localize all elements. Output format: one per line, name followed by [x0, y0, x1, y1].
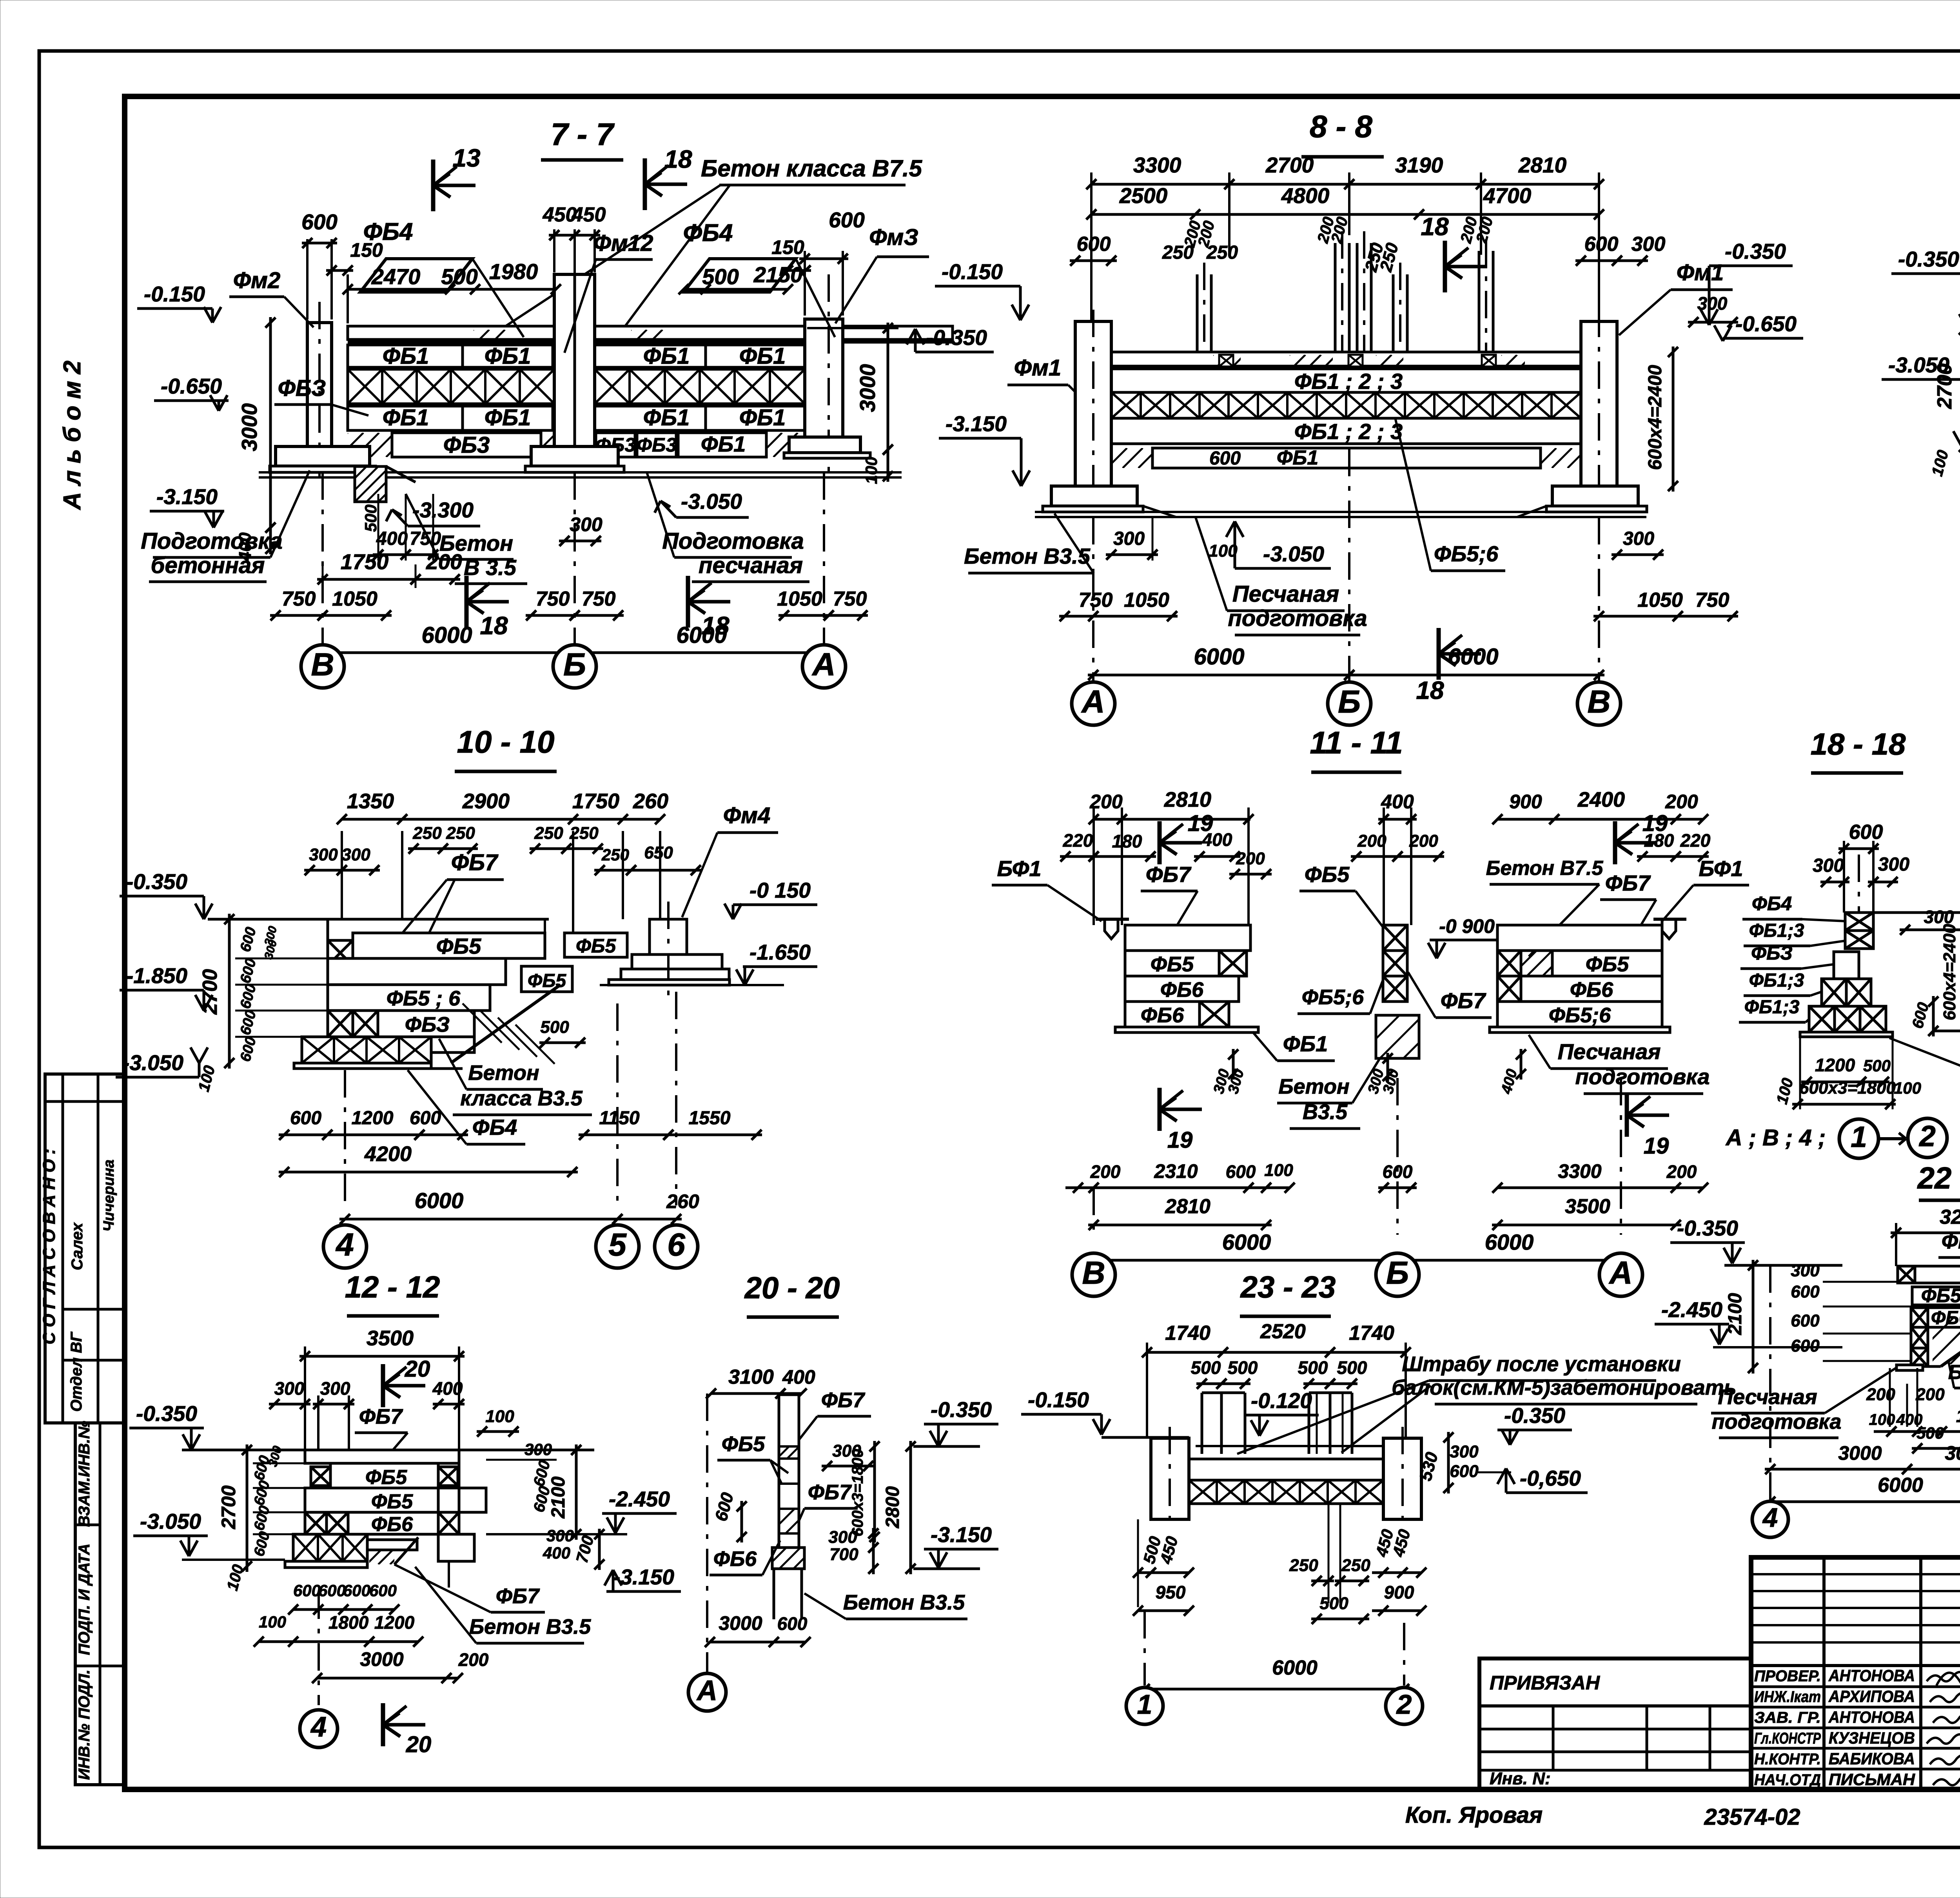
svg-text:200: 200 [1666, 1161, 1697, 1182]
top level line 22-22 [1724, 1264, 1842, 1267]
right pier blocks 11-11 [1497, 925, 1662, 951]
svg-text:18: 18 [1416, 676, 1444, 704]
axis circle A 7-7 [823, 472, 825, 645]
svg-text:ФБ3: ФБ3 [637, 434, 677, 456]
svg-text:-3.050: -3.050 [1263, 542, 1324, 566]
svg-text:-0.350: -0.350 [1677, 1216, 1738, 1240]
axis circle 6 10-10 [675, 992, 677, 1205]
svg-text:750: 750 [833, 588, 867, 610]
svg-text:-0.350: -0.350 [1504, 1403, 1565, 1428]
wall 7-7 row FB1 upper [348, 345, 463, 367]
svg-text:ФБ3: ФБ3 [443, 432, 490, 458]
svg-text:600: 600 [829, 208, 865, 232]
footing 20-20 [772, 1548, 804, 1569]
svg-text:КУЗНЕЦОВ: КУЗНЕЦОВ [1829, 1729, 1915, 1747]
beam 23-23 [1189, 1459, 1385, 1480]
svg-text:1200: 1200 [352, 1108, 394, 1129]
svg-text:600: 600 [369, 1581, 397, 1600]
svg-text:ФБ1: ФБ1 [1283, 1031, 1328, 1056]
svg-text:100: 100 [862, 457, 880, 484]
svg-text:ФБ1: ФБ1 [701, 432, 746, 456]
BF1 tee right 11-11 [1653, 918, 1686, 921]
svg-text:ФБ5;6: ФБ5;6 [1549, 1003, 1611, 1027]
svg-text:450: 450 [572, 203, 606, 226]
svg-text:600: 600 [1450, 1462, 1479, 1481]
svg-text:600: 600 [301, 210, 338, 234]
svg-text:950: 950 [1156, 1582, 1186, 1602]
svg-text:3500: 3500 [367, 1326, 414, 1350]
svg-text:250: 250 [601, 846, 629, 864]
svg-text:500: 500 [441, 264, 477, 289]
right pedestal 10-10 [650, 919, 687, 954]
svg-text:ФБ5: ФБ5 [371, 1490, 413, 1513]
svg-text:ВЗАМ.ИНВ.№: ВЗАМ.ИНВ.№ [76, 1421, 93, 1527]
svg-text:-0,650: -0,650 [1520, 1466, 1581, 1490]
svg-text:-2.450: -2.450 [1661, 1297, 1722, 1322]
axis circle 5 10-10 [616, 1003, 619, 1205]
svg-text:ФБЗ: ФБЗ [1751, 942, 1793, 964]
svg-text:3000: 3000 [719, 1612, 762, 1634]
right vertical dim 3000 7-7 [887, 323, 889, 455]
svg-text:-0.120: -0.120 [1251, 1388, 1312, 1413]
svg-text:300: 300 [309, 845, 338, 864]
svg-text:ФБ6: ФБ6 [713, 1547, 757, 1571]
svg-text:20: 20 [405, 1356, 430, 1382]
svg-text:3100: 3100 [728, 1366, 774, 1388]
svg-text:3000: 3000 [1838, 1442, 1882, 1464]
dim 600 over column V [306, 239, 309, 319]
svg-text:Подготовка: Подготовка [141, 528, 283, 554]
svg-text:600: 600 [1849, 821, 1883, 844]
svg-text:18: 18 [664, 145, 692, 173]
svg-text:1050: 1050 [1124, 589, 1169, 611]
svg-text:200: 200 [1090, 1161, 1121, 1182]
svg-text:-2.450: -2.450 [609, 1487, 670, 1511]
svg-text:С О Г Л А С О В А Н О :: С О Г Л А С О В А Н О : [40, 1149, 59, 1345]
svg-text:18: 18 [480, 611, 508, 640]
svg-text:150: 150 [771, 236, 804, 258]
svg-text:ФБ1: ФБ1 [643, 343, 690, 369]
svg-text:2470: 2470 [371, 264, 421, 289]
svg-text:500: 500 [702, 264, 739, 289]
svg-text:ФБ5: ФБ5 [365, 1466, 407, 1489]
section marker 20 top 12-12 [381, 1364, 385, 1407]
dim 100 right bottom 7-7 [887, 444, 889, 482]
svg-text:2900: 2900 [462, 789, 510, 813]
svg-text:БФ1: БФ1 [997, 856, 1041, 881]
svg-text:600: 600 [1209, 448, 1241, 469]
svg-text:Фм2: Фм2 [233, 268, 280, 293]
wall band 8-8 top beam [1111, 352, 1581, 366]
svg-text:-3.150: -3.150 [613, 1565, 674, 1589]
svg-text:ФБ5 ; 6: ФБ5 ; 6 [1921, 1285, 1960, 1306]
svg-text:ФБ1;3: ФБ1;3 [1744, 997, 1800, 1018]
svg-text:3300: 3300 [1133, 153, 1181, 177]
svg-text:Отдел ВГ: Отдел ВГ [68, 1331, 85, 1412]
svg-text:400: 400 [1381, 791, 1414, 813]
svg-text:-0.650: -0.650 [1735, 312, 1797, 336]
svg-text:750: 750 [582, 588, 616, 610]
svg-text:Фм12: Фм12 [593, 230, 653, 256]
section marker 20 bottom 12-12 [381, 1703, 385, 1746]
axis circle A 8-8 [1092, 517, 1094, 682]
svg-text:ФБ6: ФБ6 [371, 1513, 413, 1536]
base plate 18-18 [1800, 1032, 1893, 1037]
svg-text:220: 220 [1063, 830, 1093, 851]
svg-text:12 - 12: 12 - 12 [345, 1270, 440, 1304]
shelf 23-23 [1196, 1445, 1383, 1447]
svg-text:ФБ5: ФБ5 [436, 934, 481, 958]
axis circle 2 23-23 [1403, 1623, 1405, 1686]
svg-text:500: 500 [1319, 1594, 1348, 1613]
column A 7-7 [805, 319, 843, 437]
section marker 18 bottom-right [686, 576, 690, 628]
svg-text:260: 260 [633, 789, 668, 813]
svg-text:2700: 2700 [199, 969, 221, 1015]
svg-text:ПИСЬМАН: ПИСЬМАН [1829, 1770, 1916, 1789]
svg-text:200: 200 [458, 1649, 489, 1670]
svg-text:200: 200 [1357, 831, 1387, 851]
svg-text:100: 100 [259, 1613, 286, 1631]
svg-text:2800: 2800 [882, 1486, 903, 1528]
axis circle 4 22-22 [1769, 1265, 1771, 1501]
svg-text:1550: 1550 [689, 1108, 731, 1129]
svg-text:ФБ7: ФБ7 [821, 1388, 866, 1412]
section marker 19 topright 11-11 [1613, 821, 1617, 864]
svg-text:250: 250 [569, 824, 599, 843]
svg-text:ФБ1: ФБ1 [485, 343, 531, 369]
svg-text:13: 13 [452, 144, 480, 172]
svg-text:ФБ5: ФБ5 [722, 1432, 765, 1456]
axis circle B 11-11 [1396, 1078, 1399, 1235]
svg-text:В: В [311, 647, 334, 682]
dims top 10-10 [341, 831, 343, 919]
left vdims 22-22 [1752, 1260, 1755, 1374]
svg-text:100: 100 [1264, 1161, 1293, 1180]
svg-text:100: 100 [485, 1407, 514, 1426]
svg-text:1150: 1150 [599, 1108, 640, 1129]
svg-text:1050: 1050 [1637, 589, 1683, 611]
svg-text:-0.350: -0.350 [136, 1401, 197, 1426]
svg-text:-3.150: -3.150 [946, 412, 1007, 436]
columns 23-23 [1151, 1438, 1189, 1519]
pier stack 18-18 [1845, 913, 1873, 931]
svg-text:Бетон В3.5: Бетон В3.5 [469, 1615, 591, 1639]
posts 23-23 [1201, 1393, 1203, 1454]
svg-text:22 - 22: 22 - 22 [1917, 1161, 1960, 1195]
dims top row2 8-8 [1091, 213, 1599, 216]
svg-text:А: А [696, 1675, 717, 1706]
svg-text:220: 220 [1680, 830, 1711, 851]
svg-text:ФБ6: ФБ6 [1570, 978, 1613, 1002]
base plate 10-10 [294, 1063, 431, 1069]
svg-text:Бетон: Бетон [1278, 1075, 1349, 1098]
mid X stack 11-11 [1383, 925, 1407, 951]
svg-text:ФБ7: ФБ7 [451, 850, 499, 875]
top level line 23-23 [1102, 1436, 1189, 1439]
svg-text:Подготовка: Подготовка [662, 528, 804, 554]
svg-text:2500: 2500 [1119, 183, 1168, 208]
svg-text:ФБ5: ФБ5 [1305, 862, 1350, 887]
svg-text:250: 250 [1289, 1556, 1318, 1575]
svg-text:600: 600 [1226, 1161, 1256, 1182]
svg-text:6000: 6000 [415, 1188, 464, 1213]
svg-text:300: 300 [1878, 854, 1909, 875]
svg-text:20 - 20: 20 - 20 [744, 1270, 840, 1305]
svg-text:900: 900 [1509, 791, 1542, 813]
svg-text:600х3=1800: 600х3=1800 [1799, 1078, 1896, 1098]
svg-text:600: 600 [410, 1108, 441, 1129]
svg-text:ФБ4: ФБ4 [472, 1115, 517, 1140]
svg-text:600х3=1800: 600х3=1800 [849, 1449, 866, 1537]
svg-text:4700: 4700 [1483, 183, 1532, 208]
ground line 8-8 [1035, 511, 1646, 513]
svg-text:1050: 1050 [777, 588, 822, 610]
svg-text:500: 500 [540, 1018, 569, 1037]
wedge 10-10 [451, 985, 561, 1063]
svg-text:АРХИПОВА: АРХИПОВА [1828, 1687, 1915, 1706]
svg-text:180: 180 [1112, 831, 1142, 851]
svg-text:500: 500 [1337, 1357, 1367, 1378]
svg-text:1750: 1750 [572, 789, 619, 813]
section marker 18 bottom 8-8 [1437, 628, 1441, 680]
svg-text:600: 600 [777, 1613, 808, 1634]
svg-text:-3.050: -3.050 [681, 489, 742, 514]
svg-text:6: 6 [667, 1227, 686, 1263]
svg-text:1750: 1750 [341, 550, 389, 574]
axis circle V 11-11 [1093, 1188, 1095, 1235]
left margin inv table [75, 1423, 125, 1785]
svg-text:650: 650 [644, 843, 673, 862]
structure 22-22 [1898, 1266, 1915, 1283]
structure 10-10 [353, 933, 545, 958]
svg-text:300: 300 [1113, 528, 1145, 549]
svg-text:ФБ5 ; 6: ФБ5 ; 6 [387, 987, 461, 1010]
svg-text:ИНВ.№ ПОДЛ.: ИНВ.№ ПОДЛ. [76, 1669, 93, 1780]
privyazan table [1479, 1658, 1751, 1789]
svg-text:750: 750 [282, 588, 316, 610]
svg-text:19: 19 [1644, 1133, 1669, 1159]
svg-text:750: 750 [536, 588, 570, 610]
svg-text:ФБ4: ФБ4 [683, 220, 733, 247]
svg-text:ФБ1: ФБ1 [739, 343, 786, 369]
svg-text:3200: 3200 [1940, 1206, 1960, 1228]
svg-text:750: 750 [1079, 589, 1113, 611]
wall 8-8 X row [1111, 392, 1581, 418]
vertical dim 3000 left 7-7 [269, 317, 272, 533]
note sand prep long 18-18 leader [1889, 1038, 1960, 1096]
X row 23-23 [1189, 1480, 1383, 1504]
svg-text:900: 900 [1384, 1582, 1414, 1602]
svg-text:700: 700 [829, 1545, 858, 1564]
svg-text:1: 1 [1137, 1689, 1152, 1720]
svg-text:ИНЖ.Iкат: ИНЖ.Iкат [1754, 1688, 1821, 1706]
svg-text:3000: 3000 [1945, 1442, 1960, 1464]
top level line 12-12 [182, 1449, 594, 1452]
svg-text:ФБ6: ФБ6 [1160, 978, 1204, 1002]
top level line 10-10 [208, 918, 549, 921]
svg-text:600: 600 [290, 1108, 321, 1129]
svg-text:Гл.КОНСТР: Гл.КОНСТР [1754, 1730, 1821, 1747]
svg-text:260: 260 [666, 1190, 699, 1212]
svg-text:300: 300 [1697, 293, 1728, 314]
svg-text:300: 300 [1813, 855, 1844, 876]
svg-text:200: 200 [1236, 849, 1265, 868]
svg-text:2810: 2810 [1518, 153, 1567, 177]
wall 8-8 row FB123 lower [1111, 418, 1581, 444]
svg-text:3190: 3190 [1395, 153, 1443, 177]
svg-text:7 - 7: 7 - 7 [551, 117, 615, 152]
svg-text:ФБ5: ФБ5 [528, 971, 566, 991]
section cut marker 18 top [643, 158, 647, 210]
svg-text:2100: 2100 [1725, 1293, 1746, 1335]
svg-text:300: 300 [524, 1440, 552, 1459]
svg-text:400: 400 [376, 528, 408, 549]
svg-text:-3.300: -3.300 [412, 498, 474, 522]
svg-text:6000: 6000 [1485, 1230, 1534, 1254]
dim 150 right [782, 269, 811, 272]
svg-text:2810: 2810 [1165, 1195, 1210, 1218]
svg-text:ФБ4: ФБ4 [1752, 893, 1792, 915]
svg-text:Бетон В3.5: Бетон В3.5 [964, 544, 1091, 568]
svg-text:200: 200 [1915, 1385, 1945, 1404]
dims top row1 8-8 [1090, 172, 1093, 329]
wall 8-8 bottom FB1 row [1152, 448, 1541, 468]
svg-text:20: 20 [406, 1732, 432, 1757]
svg-text:500: 500 [1298, 1357, 1328, 1378]
svg-text:ФБ1: ФБ1 [383, 343, 429, 369]
svg-text:2700: 2700 [1933, 363, 1956, 409]
svg-text:-3.150: -3.150 [156, 484, 218, 509]
svg-text:300: 300 [320, 1378, 350, 1399]
svg-text:400: 400 [1202, 829, 1232, 850]
svg-text:Бетон класса В7.5: Бетон класса В7.5 [701, 155, 923, 181]
title block outer [1751, 1557, 1960, 1789]
svg-text:600: 600 [318, 1581, 346, 1600]
svg-text:-0.350: -0.350 [931, 1397, 992, 1422]
svg-text:-0.350: -0.350 [926, 325, 987, 350]
ground line 7-7 [259, 471, 902, 474]
svg-text:-0.650: -0.650 [161, 374, 222, 398]
svg-text:БАБИКОВА: БАБИКОВА [1829, 1749, 1915, 1768]
svg-text:2810: 2810 [1164, 788, 1211, 811]
wall 8-8 row FB123 upper [1111, 369, 1581, 392]
svg-text:400: 400 [782, 1366, 815, 1388]
svg-text:250: 250 [446, 824, 475, 843]
svg-text:2700: 2700 [218, 1485, 240, 1529]
svg-text:3000: 3000 [360, 1648, 403, 1670]
svg-text:Бетон: Бетон [468, 1061, 539, 1085]
section marker 19 topleft 11-11 [1158, 821, 1162, 864]
svg-text:1740: 1740 [1165, 1322, 1210, 1345]
pit near axis V 7-7 [355, 466, 386, 502]
svg-text:ФБ7: ФБ7 [808, 1481, 852, 1504]
svg-text:ФБ7: ФБ7 [359, 1405, 403, 1428]
svg-text:-3.050: -3.050 [122, 1051, 183, 1075]
svg-text:600: 600 [1791, 1282, 1820, 1301]
svg-text:ФмЗ: ФмЗ [869, 225, 918, 250]
svg-text:1800: 1800 [328, 1612, 369, 1633]
svg-text:5: 5 [608, 1227, 627, 1263]
svg-text:100: 100 [1869, 1411, 1895, 1428]
footing pads 7-7 [276, 446, 370, 466]
svg-text:4200: 4200 [364, 1142, 412, 1166]
svg-text:250: 250 [534, 824, 563, 843]
mid pedestal 11-11 [1376, 1015, 1419, 1058]
svg-text:АНТОНОВА: АНТОНОВА [1828, 1666, 1915, 1685]
svg-text:19: 19 [1167, 1127, 1193, 1153]
svg-text:ФБ1: ФБ1 [485, 405, 531, 430]
svg-text:6000: 6000 [1272, 1657, 1318, 1679]
svg-text:500: 500 [1228, 1357, 1258, 1378]
svg-text:1200: 1200 [1815, 1055, 1855, 1075]
svg-text:6000: 6000 [1448, 644, 1498, 670]
svg-text:23574-02: 23574-02 [1704, 1804, 1800, 1830]
svg-text:-0.150: -0.150 [1028, 1388, 1089, 1412]
svg-text:3000: 3000 [855, 364, 880, 412]
svg-text:2700: 2700 [1265, 153, 1314, 177]
svg-text:ЗАВ. ГР.: ЗАВ. ГР. [1754, 1709, 1821, 1726]
svg-text:2310: 2310 [1154, 1160, 1198, 1182]
dim 600 over column A [804, 251, 806, 316]
left vdims 12-12 [246, 1444, 249, 1572]
svg-text:ФБЗ: ФБЗ [405, 1013, 450, 1036]
svg-text:1: 1 [1851, 1120, 1867, 1153]
svg-text:600х4=2400: 600х4=2400 [1645, 365, 1666, 470]
svg-text:В: В [1587, 684, 1610, 720]
svg-text:3300: 3300 [1558, 1160, 1601, 1182]
thin posts 8-8 [1196, 274, 1199, 352]
base plate 12-12 [285, 1561, 367, 1568]
svg-text:6000: 6000 [676, 622, 727, 648]
svg-text:Песчаная: Песчаная [1558, 1039, 1661, 1064]
svg-text:ФБ5;6: ФБ5;6 [1302, 985, 1364, 1009]
svg-text:6000: 6000 [1194, 644, 1244, 670]
svg-text:250: 250 [412, 824, 442, 843]
svg-text:3500: 3500 [1565, 1195, 1610, 1218]
vdim 600x4=2400 right 8-8 [1672, 347, 1675, 492]
svg-text:300: 300 [1623, 528, 1654, 549]
svg-text:10 - 10: 10 - 10 [457, 724, 554, 759]
column Fm1 right 8-8 [1581, 321, 1617, 486]
svg-text:750: 750 [410, 528, 441, 549]
svg-text:-0 150: -0 150 [750, 878, 811, 902]
svg-text:А: А [1081, 684, 1105, 720]
parallelogram dims 2470 500 1980 [360, 259, 472, 292]
column V 7-7 [307, 323, 332, 446]
svg-text:6000: 6000 [1222, 1230, 1271, 1254]
svg-text:ФБ1: ФБ1 [643, 405, 690, 430]
svg-text:2150: 2150 [753, 262, 803, 287]
svg-text:600: 600 [1584, 233, 1619, 256]
svg-text:ФБ4: ФБ4 [363, 218, 413, 245]
svg-text:А: А [811, 647, 835, 682]
svg-text:300: 300 [1632, 233, 1666, 256]
svg-text:-1.850: -1.850 [126, 964, 187, 988]
dim 450 450 over column B [553, 229, 555, 272]
left pier blocks 11-11 [1125, 925, 1250, 951]
svg-text:-3.150: -3.150 [931, 1522, 992, 1547]
axis circle A 20-20 [706, 1394, 708, 1674]
svg-text:2100: 2100 [548, 1476, 569, 1519]
svg-text:-0.350: -0.350 [126, 869, 187, 894]
structure 12-12 [305, 1450, 459, 1463]
axis circle B 8-8 [1348, 449, 1350, 682]
svg-text:Фм1: Фм1 [1014, 355, 1061, 381]
svg-text:6000: 6000 [421, 622, 472, 648]
ground 23-23 [1151, 1518, 1189, 1521]
section marker 19 bottomright 11-11 [1625, 1094, 1629, 1137]
